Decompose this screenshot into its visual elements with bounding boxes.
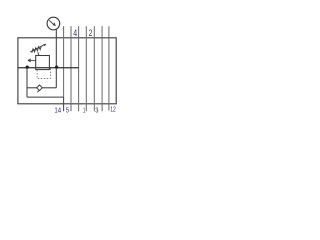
drain outlet tick [37,91,39,93]
wire tube 1 vertical x=78.5 [78,26,80,111]
svg-text:3: 3 [95,105,98,114]
pressure regulator valve body [36,56,50,70]
wire tube 12A vertical x=101.9 [101,26,103,111]
wire tube 4A vertical x=63.4 [63,26,65,97]
svg-text:4: 4 [73,28,77,38]
svg-text:14: 14 [54,105,61,114]
svg-text:12: 12 [110,104,116,113]
wire gauge stem x=56.3 [55,29,57,68]
adjustment arrow through spring [30,44,45,51]
pressure gauge Z1 [47,17,60,30]
condensate drain diamond [37,85,43,91]
wire tube 3B vertical x=94.2 [93,26,95,111]
vent arrow (relief) left of regulator [28,59,36,61]
main supply line y=67.8 [18,67,79,69]
spring (adjustable, zigzag) on top of regulator [32,46,42,53]
wire drain branch horizontal to diamond [27,87,37,89]
wire bottom routing horizontal y=97.1 [27,96,64,98]
wire tube 12B vertical x=109.0 [108,26,110,110]
wire from diamond to stem leg [42,87,56,89]
wire tube 2A vertical x=71.0 [70,26,72,111]
wire tube 3A vertical x=86.2 [85,26,87,111]
node junction dot at gauge stem [55,65,58,68]
svg-text:1: 1 [83,105,85,114]
svg-text:2: 2 [89,28,93,38]
node junction dot left x=27 [26,65,29,68]
frame border [18,38,116,104]
wire drain branch left leg down [26,68,28,97]
wire drain right leg up to stem junction [55,68,57,88]
pilot line (dashed) of regulator [37,69,50,79]
svg-text:5: 5 [66,105,69,114]
